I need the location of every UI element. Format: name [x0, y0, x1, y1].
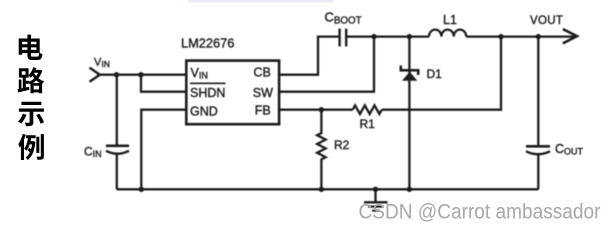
junction node ground tap — [373, 187, 378, 192]
wire CB to CBOOT — [279, 37, 339, 75]
svg-text:SW: SW — [253, 86, 273, 100]
junction node R2 bottom — [319, 187, 324, 192]
label VIN input — [94, 57, 110, 70]
wire U1 GND to ground rail — [141, 110, 186, 190]
svg-text:VOUT: VOUT — [530, 15, 563, 27]
wire VIN to U1 pin VIN — [97, 74, 186, 76]
junction node COUT tap — [536, 34, 541, 39]
svg-text:COUT: COUT — [555, 142, 584, 157]
pin label GND — [190, 104, 218, 118]
wire CIN down — [116, 75, 118, 145]
junction node D1 top — [407, 34, 412, 39]
resistor R2 — [317, 110, 326, 190]
title text 电路示例 — [18, 35, 45, 160]
svg-text:VIN: VIN — [191, 66, 208, 81]
junction node GND on rail — [139, 187, 144, 192]
svg-text:VIN: VIN — [94, 57, 110, 70]
junction node CIN branch — [114, 72, 119, 77]
label D1 — [427, 67, 443, 81]
IC U1 LM22676 body — [186, 61, 279, 125]
wire ground rail — [117, 188, 539, 190]
junction node feedback tap — [498, 34, 503, 39]
capacitor CBOOT — [340, 29, 347, 47]
junction node R2 tap — [319, 107, 324, 112]
label COUT — [555, 142, 584, 157]
inductor L1 — [429, 30, 466, 37]
junction node switch node — [371, 34, 376, 39]
wire switch node to D1 top — [374, 35, 409, 37]
pin label SW — [253, 86, 273, 100]
label CIN — [84, 145, 102, 160]
watermark CSDN @Carrot ambassador — [359, 200, 601, 224]
label CBOOT — [325, 10, 362, 27]
capacitor COUT — [526, 146, 550, 154]
svg-text:GND: GND — [190, 104, 218, 118]
label R2 — [334, 138, 350, 152]
pin label SHDN with overline — [190, 86, 225, 100]
wire SHDN jog — [141, 75, 186, 92]
junction node SHDN branch — [138, 72, 143, 77]
label VOUT — [530, 15, 563, 27]
svg-text:FB: FB — [255, 104, 271, 118]
diode D1 symbol — [400, 66, 420, 81]
pin label FB — [255, 104, 271, 118]
svg-text:CSDN @Carrot ambassador: CSDN @Carrot ambassador — [359, 200, 601, 224]
svg-text:CBOOT: CBOOT — [325, 10, 362, 27]
ground symbol — [364, 189, 388, 210]
pin label CB — [254, 66, 271, 80]
svg-text:L1: L1 — [443, 13, 457, 27]
label LM22676 — [181, 36, 234, 51]
wire VOUT to COUT — [537, 37, 539, 146]
svg-text:SHDN: SHDN — [190, 86, 225, 100]
svg-text:LM22676: LM22676 — [181, 36, 234, 51]
wire COUT to ground rail — [537, 154, 539, 189]
wire CBOOT to switch node — [346, 35, 374, 37]
svg-text:D1: D1 — [427, 67, 443, 81]
output terminal arrow VOUT — [563, 29, 577, 43]
diode D1 vertical wire — [408, 37, 410, 190]
svg-text:CB: CB — [254, 66, 271, 80]
svg-text:CIN: CIN — [84, 145, 102, 160]
junction node D1 bottom — [407, 187, 412, 192]
input terminal arrow VIN — [90, 68, 100, 82]
wire L1 to VOUT — [466, 35, 575, 37]
svg-text:R2: R2 — [334, 138, 350, 152]
resistor R1 — [353, 105, 382, 114]
capacitor CIN — [106, 146, 129, 154]
wire CIN to ground rail — [116, 154, 118, 190]
wire SW up to switch node — [279, 37, 374, 92]
wire FB to R1 — [279, 109, 353, 111]
wire D1 top to L1 — [409, 35, 429, 37]
wire R1 to feedback tap — [382, 37, 501, 110]
label R1 — [360, 117, 376, 131]
label L1 — [443, 13, 457, 27]
svg-text:R1: R1 — [360, 117, 376, 131]
pin label VIN — [191, 66, 208, 81]
